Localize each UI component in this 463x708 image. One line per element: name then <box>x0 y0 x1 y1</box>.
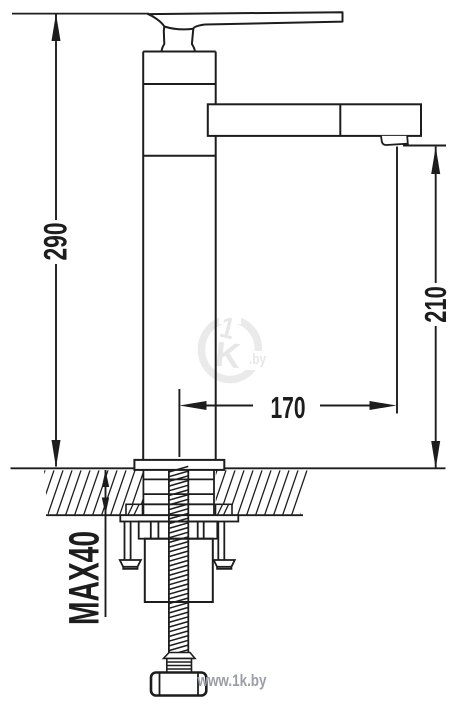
mounting shank through countertop <box>143 470 214 515</box>
svg-text:www.1k.by: www.1k.by <box>197 671 267 690</box>
dimension 170 arrows <box>180 401 397 410</box>
base plate <box>134 460 224 470</box>
spout joint line <box>339 104 341 136</box>
dimension MAX40 arrows <box>102 470 109 515</box>
svg-text:.by: .by <box>249 351 267 368</box>
countertop cross-section right hatch <box>184 470 325 515</box>
aerator outlet <box>381 136 408 145</box>
body cap joint line <box>143 83 216 85</box>
right mounting bolt <box>214 522 235 569</box>
extension line at aerator <box>403 145 446 147</box>
dimension 290 arrows <box>52 14 61 468</box>
dimension 290 line <box>55 14 57 467</box>
left seal tab <box>126 504 232 515</box>
svg-text:MAX40: MAX40 <box>60 531 108 625</box>
extension line spout outlet vertical <box>396 147 398 414</box>
dimension MAX40 line <box>105 470 107 617</box>
washer plate under counter <box>120 515 238 521</box>
handle lever <box>148 12 343 51</box>
clamp bracket <box>139 522 218 539</box>
body joint line 2 <box>143 155 216 157</box>
bottom nut <box>151 673 206 696</box>
svg-text:210: 210 <box>418 286 453 323</box>
svg-text:170: 170 <box>271 391 306 425</box>
extension line top (handle level) <box>12 13 149 15</box>
faucet body column <box>143 52 216 461</box>
threaded ferrule rings <box>167 659 192 673</box>
svg-text:K: K <box>213 335 242 376</box>
rod collar <box>164 653 196 659</box>
spout arm <box>208 104 421 136</box>
threaded mounting rod <box>169 466 188 655</box>
dimension 210 arrows <box>431 147 440 469</box>
under-sink body block <box>145 539 213 602</box>
svg-text:290: 290 <box>38 223 74 261</box>
dimension 170 line <box>206 405 370 407</box>
extension line faucet axis <box>178 389 180 457</box>
countertop top surface line <box>11 467 446 469</box>
dimension 210 line <box>435 147 437 468</box>
watermark logo 1K.by <box>202 311 270 380</box>
countertop bottom line <box>46 514 303 516</box>
left mounting bolt <box>120 522 141 569</box>
